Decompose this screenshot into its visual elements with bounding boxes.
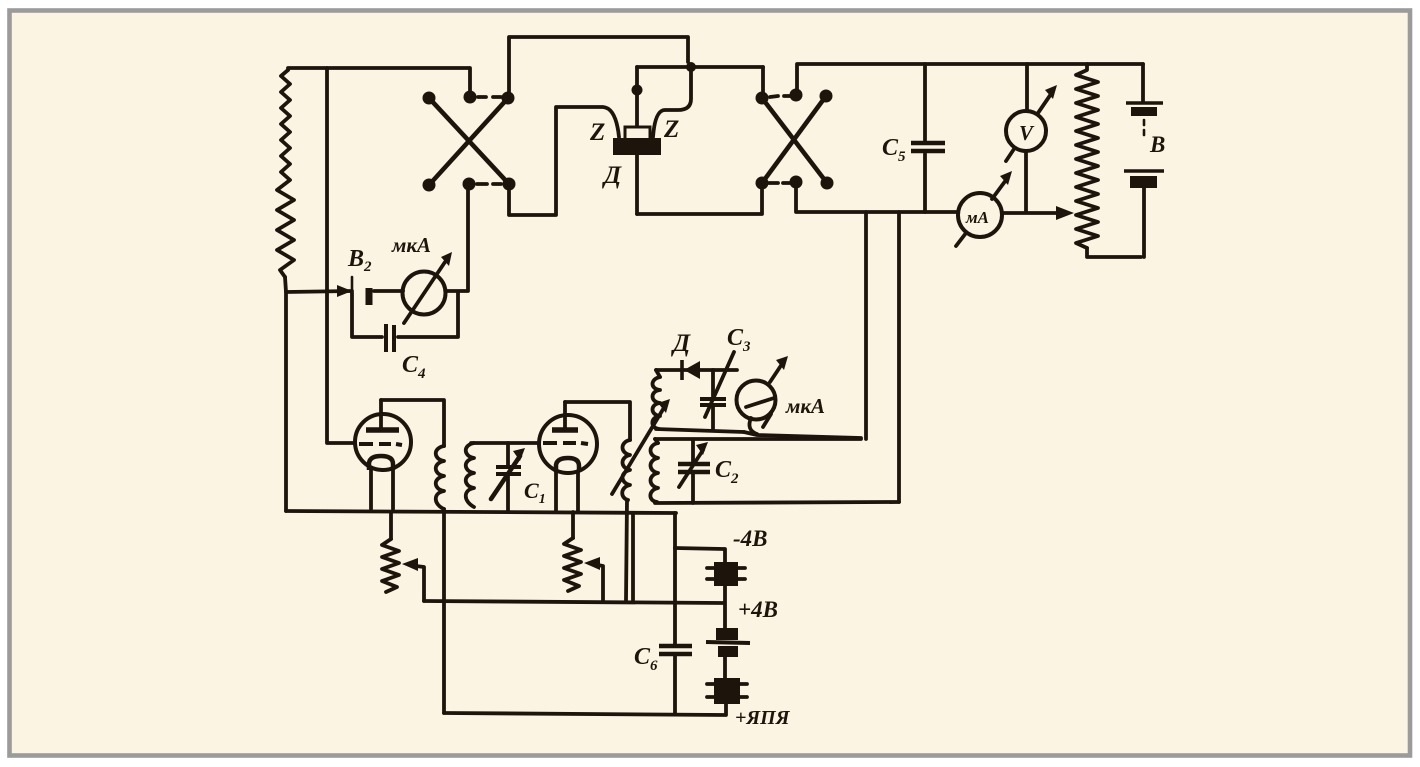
battery cell 3 — [714, 678, 740, 704]
svg-text:мкА: мкА — [785, 394, 825, 418]
resistor R4 (grid leak V2) — [571, 512, 575, 538]
V2 grid — [543, 443, 588, 444]
triode V2 envelope — [539, 415, 597, 473]
V2 anode — [552, 427, 578, 433]
wire L3 bottom to +4V rail — [626, 500, 627, 600]
diode D1 triangle — [684, 361, 700, 379]
wire box1 bottom to bus1 — [744, 432, 861, 438]
switch X2 dashes — [770, 96, 790, 97]
wire rail right from X2 — [797, 64, 1143, 89]
svg-text:Д: Д — [671, 330, 691, 357]
node junction dot at rail — [686, 62, 696, 72]
battery cell 2 — [716, 628, 738, 640]
potentiometer R2 (right vertical) — [1076, 64, 1098, 248]
battery B right — [1141, 64, 1145, 101]
V1 cathode — [369, 456, 393, 470]
svg-text:+4В: +4В — [738, 597, 778, 622]
coupling arrow into L4 — [612, 406, 665, 494]
bottom anode rail — [444, 704, 726, 715]
milliammeter mA — [958, 193, 1002, 237]
V1 base stem — [371, 469, 393, 509]
wavemeter box1 top edge — [656, 368, 737, 372]
capacitor C1 — [506, 443, 510, 465]
svg-text:Д: Д — [602, 162, 622, 189]
diode D1 bar — [680, 360, 684, 380]
capacitor C4 plates — [384, 324, 388, 352]
svg-text:мкА: мкА — [391, 233, 431, 257]
wire meter M1 to X1 bottom-middle — [374, 289, 403, 293]
wire resistor bottom junction — [285, 277, 352, 292]
box1 bottom edge — [656, 429, 744, 432]
wire Z bottom stem — [635, 155, 639, 214]
svg-text:-4В: -4В — [733, 526, 768, 551]
wire stub to X1 top-middle — [468, 68, 472, 94]
box2 top edge — [655, 437, 861, 441]
C1 variable arrow — [491, 456, 520, 499]
wire curve from rail into Z right — [653, 67, 691, 137]
wire X1 bottom-right to detector loop — [509, 107, 619, 215]
capacitor C4 loop — [352, 293, 382, 337]
wire mA to potentiometer wiper — [1002, 211, 1060, 215]
wire vertical bus 2 — [897, 212, 901, 502]
coil L1 — [436, 446, 444, 509]
wire grid vertical x327 — [327, 68, 355, 443]
switch X1 cross — [429, 98, 509, 184]
svg-text:мА: мА — [965, 208, 989, 227]
wire long vertical from L1 to bottom rail — [442, 509, 446, 713]
wire rail left segment to Z stem corner — [637, 65, 691, 69]
V1 anode — [366, 427, 399, 433]
svg-text:Z: Z — [663, 116, 679, 143]
coil L5 (box2 left) — [655, 439, 658, 443]
wire right end down / -4V branch — [673, 513, 677, 645]
+4V rail — [424, 601, 723, 603]
capacitor C2 — [691, 441, 695, 462]
resistor R1 (left vertical) — [277, 70, 294, 277]
battery B2 — [351, 277, 354, 312]
wire X2 bottom-middle to mA rail — [796, 182, 958, 212]
R4 wiper arrow — [584, 557, 600, 570]
detector Z upper rectangle — [625, 127, 650, 140]
wavemeter coil L4 (box1 left) — [656, 370, 660, 377]
node arrow at B2 wire — [337, 285, 352, 297]
coil L2 — [466, 443, 474, 507]
V2 base stem — [556, 471, 578, 511]
wire rail right segment — [691, 65, 763, 69]
detector Д black body — [613, 138, 661, 155]
resistor R3 (grid leak V1) — [389, 513, 393, 539]
wire X2 top-left stub — [761, 67, 765, 92]
cathode rail — [286, 511, 676, 513]
switch X1 contact dots — [423, 92, 436, 105]
wire top-left rail — [288, 68, 469, 70]
coil L3 — [622, 440, 630, 500]
R3 wiper arrow — [402, 558, 418, 571]
battery cell 1 — [714, 562, 738, 586]
switch X2 cross — [762, 98, 827, 183]
wire X1 top-right up and top loop — [509, 37, 688, 97]
wire Z stem with node dot — [635, 67, 639, 128]
wire L2 top to V2 grid — [471, 441, 539, 445]
wire vertical bus 1 — [864, 212, 868, 439]
microammeter M1 — [403, 272, 446, 315]
V1 grid — [359, 444, 402, 445]
svg-text:Z: Z — [589, 119, 605, 146]
C3 variable arrow — [705, 352, 734, 417]
capacitor C6 — [659, 644, 692, 649]
wire cathode tap down — [631, 513, 635, 600]
svg-text:V: V — [1019, 121, 1035, 145]
capacitor C3 — [711, 370, 715, 397]
wire V2 anode to coil L3 — [565, 402, 630, 440]
C2 variable arrow — [679, 450, 703, 487]
wire left vertical to cathode rail — [284, 292, 288, 511]
wire V1 anode to coil L1 — [381, 400, 444, 446]
capacitor C5 — [923, 64, 927, 140]
box2 bottom edge — [655, 502, 899, 503]
switch X2 contact dots — [756, 92, 769, 105]
triode V1 envelope — [355, 414, 411, 470]
V2 cathode — [556, 458, 579, 472]
switch X1 dashes — [478, 95, 501, 99]
wire detector bottom loop to X2 — [637, 190, 762, 214]
svg-text:В: В — [1149, 132, 1165, 157]
battery stack lead — [673, 546, 677, 550]
microammeter M2 — [737, 381, 776, 420]
voltmeter V — [1006, 111, 1046, 151]
svg-text:+ЯПЯ: +ЯПЯ — [735, 707, 791, 729]
